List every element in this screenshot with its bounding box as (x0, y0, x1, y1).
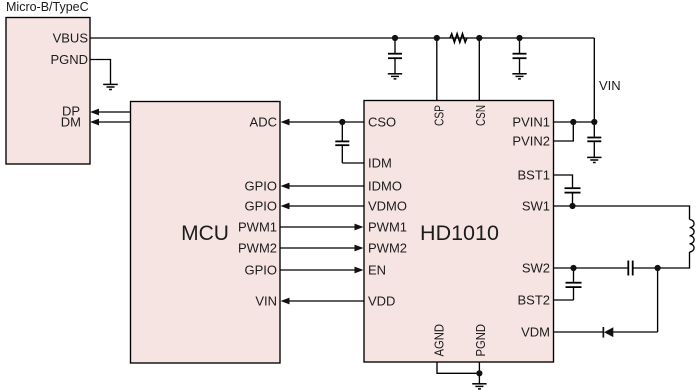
svg-text:Micro-B/TypeC: Micro-B/TypeC (6, 0, 89, 14)
svg-text:PVIN1: PVIN1 (512, 115, 550, 130)
wire PVIN2 (554, 122, 574, 141)
wire diode branch up (657, 268, 659, 332)
wire CSP drop (436, 38, 438, 101)
svg-text:BST1: BST1 (517, 168, 550, 183)
junction dot rail CSN (476, 35, 482, 41)
capacitor C7 (bootstrap 2) (566, 268, 582, 300)
wire GPIO to EN (280, 269, 355, 271)
svg-text:VDD: VDD (368, 294, 395, 309)
arrowhead PWM1 (355, 224, 364, 231)
capacitor C5 (bootstrap 1) (565, 188, 581, 192)
junction dot PVIN1 VIN (591, 119, 597, 125)
wire CSO to ADC (289, 121, 364, 123)
wire IDMO to GPIO (289, 185, 364, 187)
wire VIN vertical (593, 38, 595, 122)
wire BST1 (554, 175, 573, 187)
capacitor C1 (input cap left) (388, 38, 402, 74)
svg-text:DM: DM (61, 115, 81, 130)
junction dot rail C2 (516, 35, 522, 41)
svg-text:PWM1: PWM1 (368, 220, 407, 235)
svg-text:AGND: AGND (431, 324, 446, 357)
svg-text:IDM: IDM (368, 156, 392, 171)
connector box Micro-B/TypeC (6, 18, 90, 165)
svg-text:PWM2: PWM2 (368, 241, 407, 256)
svg-text:GPIO: GPIO (244, 263, 277, 278)
ground for C4 (587, 157, 601, 162)
svg-text:CSP: CSP (431, 105, 446, 126)
wire SW2 right segment (634, 267, 658, 269)
wire PWM1 (280, 226, 355, 228)
svg-text:PGND: PGND (50, 52, 88, 67)
wire AGND (437, 362, 479, 373)
svg-text:VBUS: VBUS (53, 31, 89, 46)
wire DP (98, 111, 131, 113)
wire VBUS rail (90, 37, 594, 39)
wire SW1 (554, 206, 690, 220)
junction dot PVIN1-PVIN2 (570, 119, 576, 125)
svg-text:VDMO: VDMO (368, 199, 407, 214)
ground for C2 (512, 74, 526, 79)
svg-text:CSN: CSN (473, 105, 488, 126)
svg-text:IDMO: IDMO (368, 179, 402, 194)
wire SW2 left segment (554, 267, 628, 269)
inductor L1 (690, 220, 695, 252)
diode D1 (604, 327, 613, 337)
junction dot SW2 right (655, 265, 661, 271)
arrowhead PWM2 (355, 245, 364, 252)
svg-text:SW1: SW1 (522, 199, 550, 214)
junction dot PGND/AGND (476, 370, 482, 376)
junction dot SW1 (569, 203, 575, 209)
svg-text:VIN: VIN (599, 78, 621, 93)
svg-text:GPIO: GPIO (244, 199, 277, 214)
svg-text:PWM2: PWM2 (238, 241, 277, 256)
ground PGND connector (103, 84, 118, 89)
junction dot rail C1 (392, 35, 398, 41)
svg-text:MCU: MCU (181, 222, 229, 245)
svg-text:VIN: VIN (255, 294, 277, 309)
svg-text:GPIO: GPIO (244, 179, 277, 194)
svg-text:VDM: VDM (521, 325, 550, 340)
svg-text:EN: EN (368, 263, 386, 278)
arrowhead GPIO (IDMO) (281, 183, 290, 190)
wire DM (98, 121, 131, 123)
wire cap to IDM (342, 162, 364, 164)
MCU box (131, 102, 281, 364)
svg-text:SW2: SW2 (522, 261, 550, 276)
ground for C1 (388, 74, 402, 79)
IC U1 HD1010 box (364, 101, 554, 363)
junction dot rail CSP (434, 35, 440, 41)
wire BST2 (554, 299, 574, 301)
wire VDM left segment (554, 331, 604, 333)
wire PGND stub (90, 60, 111, 85)
wire inductor to SW2 (658, 252, 690, 268)
svg-text:ADC: ADC (250, 115, 277, 130)
arrowhead VIN (281, 298, 290, 305)
junction dot SW2 left (570, 265, 576, 271)
wire CSN drop (478, 38, 480, 101)
arrowhead ADC (281, 119, 290, 126)
ground power (472, 384, 486, 389)
resistor R1 (current sense) (450, 34, 467, 42)
svg-text:HD1010: HD1010 (420, 221, 499, 245)
wire VDM right segment (613, 331, 658, 333)
svg-text:CSO: CSO (368, 115, 396, 130)
arrowhead EN (355, 267, 364, 274)
wire cap to SW1 (572, 193, 574, 206)
arrowhead GPIO (VDMO) (281, 203, 290, 210)
junction dot CSO cap (339, 119, 345, 125)
wire PVIN1 (554, 121, 595, 123)
capacitor C4 (VIN cap) (587, 122, 601, 157)
capacitor C2 (input cap right) (513, 38, 527, 74)
svg-text:BST2: BST2 (517, 293, 550, 308)
arrowhead DP into connector (90, 109, 99, 116)
wire PGND drop (478, 362, 480, 384)
wire PWM2 (280, 247, 355, 249)
capacitor C3 (CSO filter) (335, 122, 349, 163)
wire VDD to VIN (289, 300, 364, 302)
svg-text:PGND: PGND (473, 324, 488, 357)
arrowhead DM into connector (90, 119, 99, 126)
wire VDMO to GPIO (289, 205, 364, 207)
svg-text:PVIN2: PVIN2 (512, 134, 550, 149)
svg-text:PWM1: PWM1 (238, 220, 277, 235)
capacitor C6 (series on SW2) (628, 261, 632, 276)
